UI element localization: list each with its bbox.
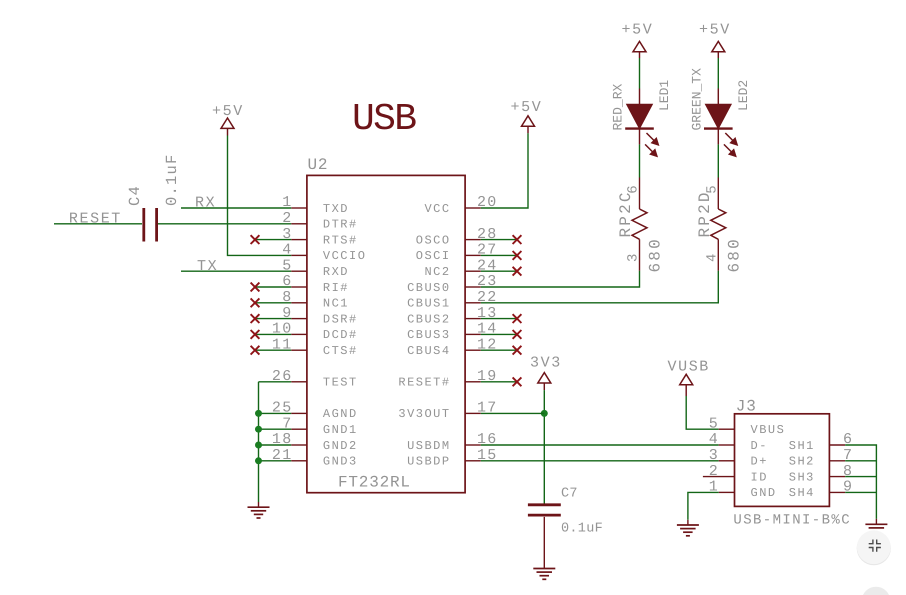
U2 pin 9 DSR# — [251, 305, 358, 327]
wire LED2 cathode to RP2D — [717, 129, 719, 178]
U2 pin 10 DCD# — [251, 321, 358, 343]
wire GND chain stem — [258, 502, 260, 507]
svg-text:GND: GND — [751, 486, 777, 500]
power +5V supply symbol (LED1) — [622, 22, 654, 52]
svg-text:RX: RX — [195, 195, 216, 212]
svg-text:4: 4 — [709, 431, 719, 448]
svg-text:RI#: RI# — [323, 281, 349, 295]
junction dot GND1 — [255, 426, 262, 433]
svg-text:27: 27 — [477, 242, 498, 259]
wire 3V3OUT pin 17 to 3V3 net — [481, 412, 545, 414]
J3 pin 7 SH2 — [789, 447, 854, 469]
wire C7 to ground — [543, 517, 545, 569]
svg-text:8: 8 — [282, 289, 292, 306]
J3 pin 8 SH3 — [789, 463, 854, 485]
U2 pin 25 AGND — [272, 400, 358, 422]
svg-text:CBUS0: CBUS0 — [407, 281, 451, 295]
U2 pin 23 CBUS0 — [407, 273, 498, 295]
U2 pin 6 RI# — [251, 273, 349, 295]
svg-text:680: 680 — [647, 237, 665, 272]
svg-text:FT232RL: FT232RL — [338, 474, 411, 492]
U2 pin 19 RESET# — [398, 368, 521, 390]
J3 pin 5 VBUS — [709, 415, 786, 437]
svg-text:U2: U2 — [308, 156, 329, 174]
svg-text:9: 9 — [282, 305, 292, 322]
svg-text:D+: D+ — [751, 455, 768, 469]
wire RP2C to CBUS0 — [481, 271, 640, 287]
U2 pin 5 RXD — [282, 257, 349, 279]
wire +5V to pin 20 VCC — [481, 126, 528, 208]
J3 pin 3 D+ — [709, 447, 768, 469]
svg-text:DTR#: DTR# — [323, 218, 358, 232]
svg-text:11: 11 — [272, 336, 293, 353]
wire J3 shield pins to ground — [845, 445, 876, 519]
wire GND chain vertical — [259, 382, 292, 502]
svg-text:LED2: LED2 — [736, 80, 751, 111]
U2 pin 8 NC1 — [251, 289, 349, 311]
svg-text:USB: USB — [352, 98, 416, 141]
svg-text:12: 12 — [477, 336, 498, 353]
svg-text:+5V: +5V — [622, 22, 654, 39]
U2 pin 11 CTS# — [251, 336, 358, 358]
wire C4 to U2 pin 2 — [158, 223, 291, 225]
svg-text:19: 19 — [477, 368, 498, 385]
ground symbol under J3 shield — [865, 524, 887, 528]
svg-text:C4: C4 — [126, 185, 144, 206]
svg-text:4: 4 — [704, 253, 720, 262]
power +5V supply symbol (LED2) — [699, 22, 731, 52]
ground symbol under J3 GND — [677, 525, 699, 536]
power 3V3 supply symbol — [530, 355, 562, 384]
svg-text:TEST: TEST — [323, 376, 358, 390]
svg-text:CBUS3: CBUS3 — [407, 328, 451, 342]
svg-text:TXD: TXD — [323, 202, 349, 216]
wire RESET to C4 — [54, 223, 142, 225]
svg-text:RP2C: RP2C — [617, 190, 635, 237]
svg-text:5: 5 — [709, 415, 719, 432]
svg-text:+5V: +5V — [699, 22, 731, 39]
svg-text:680: 680 — [725, 237, 743, 272]
svg-text:3: 3 — [709, 447, 719, 464]
U2 pin 24 NC2 — [424, 257, 521, 279]
U2 pin 26 TEST — [272, 368, 358, 390]
svg-text:VBUS: VBUS — [751, 423, 786, 437]
svg-text:3: 3 — [282, 226, 292, 243]
svg-text:2: 2 — [709, 463, 719, 480]
svg-text:RESET#: RESET# — [398, 376, 450, 390]
U2 pin 18 GND2 — [272, 431, 358, 453]
svg-text:TX: TX — [197, 258, 218, 275]
junction dot AGND — [255, 410, 262, 417]
svg-text:GND3: GND3 — [323, 455, 358, 469]
wire +5V to LED2 anode — [717, 52, 719, 105]
svg-text:USBDP: USBDP — [407, 455, 451, 469]
svg-text:CTS#: CTS# — [323, 344, 358, 358]
junction dot GND2 — [255, 442, 262, 449]
svg-text:VCC: VCC — [424, 202, 450, 216]
U2 pin 16 USBDM — [407, 431, 498, 453]
svg-text:GREEN_TX: GREEN_TX — [689, 68, 704, 131]
power +5V supply symbol (VCC) — [511, 99, 543, 126]
svg-text:NC2: NC2 — [424, 265, 450, 279]
U2 pin 7 GND1 — [282, 415, 358, 437]
ground symbol under U2 — [248, 507, 270, 518]
U2 pin 4 VCCIO — [282, 242, 366, 264]
svg-text:24: 24 — [477, 257, 498, 274]
svg-text:+5V: +5V — [511, 99, 543, 116]
svg-text:DSR#: DSR# — [323, 312, 358, 326]
LED LED1 RED_RX — [625, 104, 658, 156]
svg-text:CBUS4: CBUS4 — [407, 344, 451, 358]
U2 pin 12 CBUS4 — [407, 336, 521, 358]
U2 pin 3 RTS# — [251, 226, 358, 248]
resistor RP2C 680 — [632, 178, 647, 271]
svg-text:J3: J3 — [736, 398, 757, 416]
svg-text:6: 6 — [282, 273, 292, 290]
wire net RX to pin 1 — [181, 207, 291, 209]
wire RP2D to CBUS1 — [481, 271, 719, 303]
svg-text:SH3: SH3 — [789, 470, 815, 484]
svg-text:0.1uF: 0.1uF — [163, 153, 181, 206]
U2 pin 27 OSCI — [416, 242, 522, 264]
U2 pin 15 USBDP — [407, 447, 498, 469]
U2 pin 21 GND3 — [272, 447, 358, 469]
svg-text:DCD#: DCD# — [323, 328, 358, 342]
capacitor C4 — [144, 208, 157, 242]
U2 pin 13 CBUS2 — [407, 305, 521, 327]
J3 pin 1 GND — [709, 479, 777, 501]
svg-text:NC1: NC1 — [323, 297, 349, 311]
svg-text:CBUS2: CBUS2 — [407, 312, 451, 326]
svg-text:RXD: RXD — [323, 265, 349, 279]
svg-text:RP2D: RP2D — [696, 190, 714, 237]
svg-text:D-: D- — [751, 439, 768, 453]
wire LED1 cathode to RP2C — [639, 129, 641, 178]
wire VUSB to J3 VBUS — [686, 385, 719, 430]
partial second button at bottom edge — [862, 587, 891, 595]
svg-text:LED1: LED1 — [657, 80, 672, 111]
J3 pin 6 SH1 — [789, 431, 854, 453]
LED LED2 GREEN_TX — [704, 104, 737, 156]
wire net TX to pin 5 — [181, 270, 291, 272]
svg-text:USBDM: USBDM — [407, 439, 451, 453]
ground symbol under C7 — [533, 569, 555, 580]
U2 pin 17 3V3OUT — [398, 400, 497, 422]
wire J3 GND to ground — [688, 492, 719, 519]
svg-text:SH1: SH1 — [789, 439, 815, 453]
J3 pin 4 D- — [709, 431, 768, 453]
svg-text:SH4: SH4 — [789, 486, 815, 500]
svg-text:3V3OUT: 3V3OUT — [398, 407, 450, 421]
svg-text:RTS#: RTS# — [323, 233, 358, 247]
wire USBDM pin16 to J3 D- — [481, 444, 719, 446]
U2 pin 20 VCC — [424, 194, 497, 216]
svg-text:C7: C7 — [561, 487, 578, 502]
svg-text:VCCIO: VCCIO — [323, 249, 367, 263]
U2 pin 14 CBUS3 — [407, 321, 521, 343]
svg-text:28: 28 — [477, 226, 498, 243]
svg-text:GND1: GND1 — [323, 423, 358, 437]
svg-text:RESET: RESET — [69, 211, 122, 228]
junction dot GND3 — [255, 457, 262, 464]
svg-text:VUSB: VUSB — [668, 358, 710, 375]
fullscreen-exit button — [857, 530, 891, 565]
wire 3V3 down to C7 — [543, 383, 545, 504]
svg-text:0.1uF: 0.1uF — [561, 522, 603, 537]
junction dot 3V3OUT — [541, 410, 548, 417]
svg-text:OSCO: OSCO — [416, 233, 451, 247]
power +5V supply symbol (VCCIO) — [212, 103, 244, 129]
svg-text:RED_RX: RED_RX — [611, 83, 626, 130]
svg-text:3V3: 3V3 — [530, 355, 562, 372]
U2 pin 28 OSCO — [416, 226, 522, 248]
connector J3 body — [735, 414, 830, 507]
wire +5V to LED1 anode — [639, 52, 641, 105]
svg-text:ID: ID — [751, 470, 768, 484]
wire +5V to pin 4 VCCIO — [228, 128, 292, 255]
U2 pin 22 CBUS1 — [407, 289, 498, 311]
U2 pin 2 DTR# — [282, 210, 358, 232]
svg-text:OSCI: OSCI — [416, 249, 451, 263]
svg-text:AGND: AGND — [323, 407, 358, 421]
svg-text:3: 3 — [626, 253, 642, 262]
resistor RP2D 680 — [711, 178, 726, 271]
svg-text:GND2: GND2 — [323, 439, 358, 453]
power VUSB supply symbol — [668, 358, 710, 384]
svg-text:13: 13 — [477, 305, 498, 322]
svg-text:14: 14 — [477, 321, 498, 338]
J3 pin 9 SH4 — [789, 479, 854, 501]
svg-text:USB-MINI-B%C: USB-MINI-B%C — [733, 512, 851, 528]
svg-text:10: 10 — [272, 321, 293, 338]
wire USBDP pin15 to J3 D+ — [481, 460, 719, 462]
svg-text:CBUS1: CBUS1 — [407, 297, 451, 311]
J3 pin 2 ID — [703, 463, 768, 485]
IC U2 FT232RL chip body — [307, 175, 465, 492]
svg-text:SH2: SH2 — [789, 455, 815, 469]
U2 pin 1 TXD — [282, 194, 349, 216]
capacitor C7 — [528, 505, 561, 515]
